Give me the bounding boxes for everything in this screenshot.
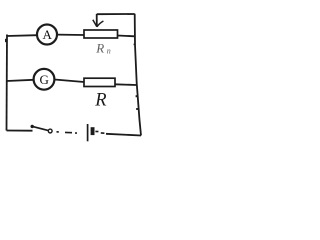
- wire bottom rail left: [7, 130, 33, 132]
- wire dashes right of battery: [95, 131, 104, 133]
- wire rheostat wiper arrow shaft: [96, 14, 98, 26]
- switch S1 pivot dot: [31, 125, 34, 128]
- switch S1 contact circle: [48, 129, 52, 133]
- label Rp (rheostat): [95, 40, 111, 55]
- wire junction tick right vertical lower: [136, 108, 138, 110]
- wire rheostat wiper loop top: [97, 13, 135, 15]
- svg-text:G: G: [40, 72, 49, 87]
- svg-text:R: R: [95, 40, 104, 55]
- wire top rail left: [7, 34, 38, 37]
- svg-text:A: A: [43, 27, 53, 42]
- wire battery to bottom right corner: [106, 134, 141, 136]
- wire right vertical: [135, 14, 141, 136]
- wire left vertical: [6, 35, 9, 131]
- ammeter A1: [37, 25, 57, 45]
- switch S1 blade: [32, 126, 48, 130]
- resistor Rp (rheostat body): [84, 30, 118, 38]
- battery B1 positive plate (long): [87, 124, 89, 141]
- svg-text:R: R: [94, 91, 106, 111]
- resistor R body: [84, 78, 115, 86]
- galvanometer G1: [34, 69, 55, 90]
- wire junction tick right vertical mid: [136, 95, 138, 97]
- wire ammeter to rheostat: [57, 34, 84, 36]
- wire dash-dot between switch and battery: [57, 132, 78, 133]
- svg-text:п: п: [107, 47, 111, 56]
- wire rheostat right terminal: [118, 35, 136, 38]
- wire rheostat wiper arrowhead: [93, 20, 104, 27]
- wire junction tick left vertical: [5, 39, 7, 42]
- wire middle rail left: [7, 80, 34, 81]
- battery B1 negative plate (short thick): [91, 127, 95, 135]
- wire resistor R right terminal: [115, 83, 137, 86]
- wire junction tick right vertical upper: [134, 44, 136, 46]
- wire galvanometer to resistor R: [55, 80, 85, 83]
